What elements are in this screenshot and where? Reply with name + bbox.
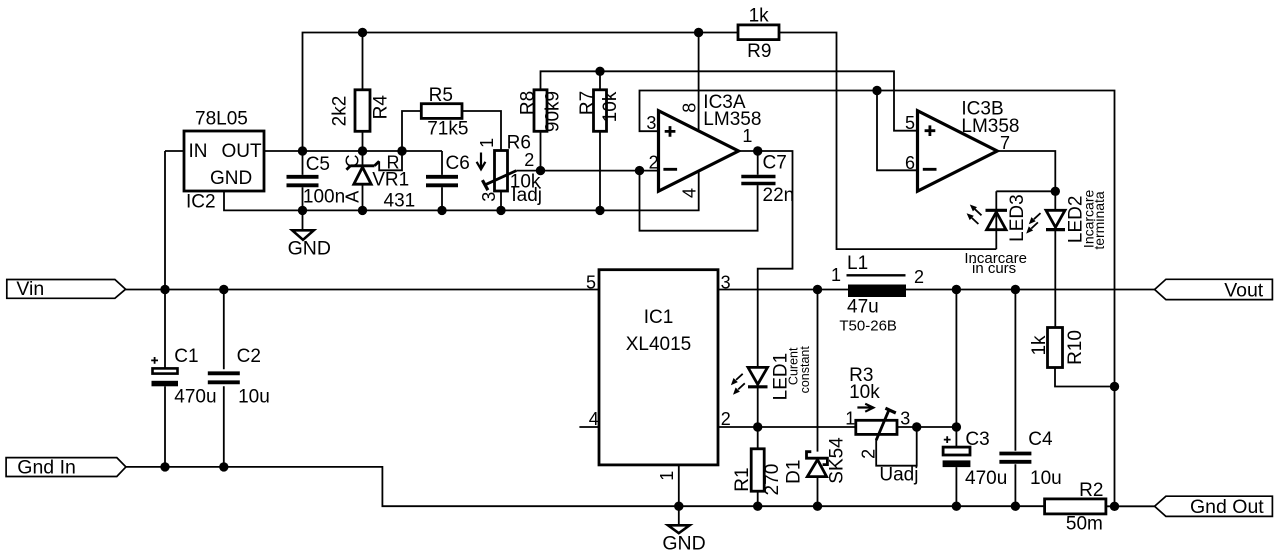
- svg-text:10u: 10u: [238, 387, 270, 408]
- svg-text:1: 1: [831, 265, 841, 285]
- resistor R10: [1029, 328, 1086, 368]
- svg-text:6: 6: [905, 153, 915, 173]
- svg-text:5: 5: [586, 272, 596, 292]
- resistor R4: [330, 90, 392, 132]
- svg-text:constant: constant: [798, 346, 812, 394]
- diode D1 SK54: [783, 437, 847, 484]
- svg-text:C6: C6: [446, 153, 470, 174]
- svg-text:1: 1: [477, 138, 497, 148]
- capacitor C3 electrolytic: [943, 429, 1008, 489]
- svg-text:GND: GND: [288, 237, 331, 259]
- LED3 charging indicator: [967, 194, 1028, 242]
- wire IC3A pin2 row: [541, 170, 659, 172]
- svg-text:LED3: LED3: [1007, 194, 1028, 242]
- svg-text:C7: C7: [763, 153, 787, 174]
- svg-text:Gnd In: Gnd In: [17, 456, 76, 478]
- svg-text:47u: 47u: [847, 297, 879, 318]
- terminal Vout: [1155, 279, 1273, 301]
- svg-text:C3: C3: [965, 429, 989, 450]
- buck converter IC1 XL4015: [599, 270, 718, 465]
- capacitor C1 electrolytic: [151, 346, 216, 408]
- svg-text:R4: R4: [371, 95, 392, 120]
- svg-text:3: 3: [900, 408, 910, 428]
- svg-text:R9: R9: [747, 41, 771, 62]
- svg-text:SK54: SK54: [827, 437, 848, 484]
- svg-text:XL4015: XL4015: [626, 334, 692, 355]
- wire Gnd In rail: [126, 467, 1045, 506]
- wire LED2 chain to R10: [1054, 191, 1056, 327]
- svg-text:R: R: [387, 153, 400, 173]
- svg-text:L1: L1: [847, 253, 868, 274]
- wire 5V top rail: [303, 33, 739, 152]
- svg-text:R5: R5: [429, 85, 453, 106]
- svg-text:8: 8: [679, 103, 699, 113]
- svg-text:50m: 50m: [1066, 514, 1103, 535]
- svg-text:2: 2: [524, 150, 534, 170]
- svg-text:10u: 10u: [1030, 468, 1062, 489]
- wire R6 wiper to R8 node: [516, 170, 540, 172]
- svg-text:1: 1: [845, 408, 855, 428]
- wire R5 left lead: [402, 111, 421, 151]
- svg-text:R2: R2: [1079, 480, 1103, 501]
- capacitor C5: [287, 154, 346, 208]
- wire VR1 ref link: [379, 151, 402, 170]
- svg-text:GND: GND: [210, 168, 252, 189]
- ground symbol GND (IC1): [662, 525, 705, 554]
- wire C5 leads: [302, 151, 304, 230]
- svg-text:R7: R7: [577, 91, 598, 115]
- wire R3 wiper loop: [876, 427, 917, 466]
- wire IC3A pin1 to C7 top: [739, 151, 758, 175]
- svg-text:C1: C1: [174, 346, 198, 367]
- svg-text:IN: IN: [189, 141, 208, 162]
- svg-text:90k9: 90k9: [543, 91, 564, 132]
- svg-text:10k: 10k: [600, 91, 621, 122]
- wire C6 top lead: [441, 151, 443, 175]
- svg-text:100n: 100n: [303, 187, 345, 208]
- svg-text:C4: C4: [1028, 429, 1053, 450]
- svg-text:IC1: IC1: [644, 307, 674, 328]
- svg-text:C: C: [343, 155, 363, 168]
- svg-text:R8: R8: [517, 91, 538, 115]
- wire IC1 pin2 FB rail: [718, 426, 956, 428]
- op-amp IC3A: [659, 92, 762, 191]
- svg-text:10k: 10k: [849, 382, 880, 403]
- svg-text:4: 4: [679, 188, 699, 198]
- regulator IC2 78L05: [184, 109, 264, 213]
- svg-text:Iadj: Iadj: [511, 185, 542, 206]
- wire Vin rail to IC1 pin5: [126, 289, 599, 291]
- wire R2 right lead: [1106, 505, 1155, 507]
- svg-text:VR1: VR1: [372, 170, 409, 191]
- svg-text:A: A: [343, 191, 363, 203]
- capacitor C7: [741, 153, 794, 207]
- svg-text:7: 7: [1000, 133, 1010, 153]
- inductor L1: [831, 253, 924, 334]
- wire R10 bottom lead: [1055, 368, 1115, 387]
- wire IC1 pin3 to L1: [718, 289, 848, 291]
- svg-text:22n: 22n: [763, 185, 795, 206]
- svg-text:3: 3: [721, 272, 731, 292]
- ground symbol GND (C5): [288, 230, 331, 259]
- wire R8 leads and rail to IC3B pin5: [541, 71, 918, 170]
- svg-text:431: 431: [384, 191, 416, 212]
- wire C3 leads: [955, 290, 957, 507]
- svg-text:T50-26B: T50-26B: [839, 317, 897, 334]
- resistor R5: [421, 85, 468, 140]
- wire VR1 leads: [362, 151, 364, 210]
- terminal Gnd Out: [1155, 496, 1273, 518]
- wire ground reference rail: [224, 171, 699, 210]
- wire IC1 pin4 stub: [579, 426, 599, 428]
- wire IC1 pin1 to ground: [678, 465, 680, 525]
- wire D1 leads: [817, 290, 819, 507]
- svg-text:Gnd Out: Gnd Out: [1190, 496, 1264, 518]
- svg-text:1: 1: [742, 126, 752, 146]
- svg-text:270: 270: [762, 464, 783, 496]
- svg-text:Uadj: Uadj: [879, 464, 918, 485]
- terminal Vin: [7, 278, 126, 300]
- svg-text:3: 3: [646, 113, 656, 133]
- svg-text:R1: R1: [732, 467, 753, 491]
- svg-text:IC2: IC2: [186, 192, 216, 213]
- wire R1 leads: [757, 427, 759, 506]
- wire LED1 bottom lead: [757, 387, 759, 427]
- wire R6 bottom lead: [500, 191, 502, 210]
- svg-text:2k2: 2k2: [330, 96, 351, 127]
- wire IC3A output detour to LED1: [758, 151, 793, 367]
- potentiometer R6 Iadj: [477, 132, 542, 206]
- svg-text:1: 1: [657, 471, 677, 481]
- svg-text:78L05: 78L05: [195, 109, 248, 130]
- wire LED3 lead: [996, 191, 1055, 249]
- svg-text:2: 2: [649, 153, 659, 173]
- svg-text:2: 2: [859, 449, 879, 459]
- svg-text:R10: R10: [1065, 330, 1086, 365]
- resistor R2 shunt: [1045, 480, 1106, 534]
- wire C6 bottom lead: [441, 187, 443, 210]
- svg-text:4: 4: [589, 409, 599, 429]
- wire IC3B pin6 tap: [877, 91, 918, 171]
- resistor R9: [738, 5, 779, 62]
- wire R4 leads: [362, 33, 364, 152]
- wire C2 leads: [223, 290, 225, 467]
- svg-text:LM358: LM358: [703, 109, 761, 130]
- svg-text:in curs: in curs: [972, 260, 1016, 277]
- op-amp IC3B: [918, 99, 1020, 192]
- wire IC3A feedback to C7: [640, 171, 758, 231]
- wire R9 right to LED3 anode: [779, 33, 996, 250]
- wire IC3A pin3 sense line: [640, 91, 1115, 507]
- svg-text:2: 2: [721, 409, 731, 429]
- svg-text:GND: GND: [662, 533, 705, 555]
- wire IC3B pin7 output: [997, 151, 1055, 191]
- svg-text:LM358: LM358: [961, 116, 1019, 137]
- wire R5 right lead to R6: [462, 111, 501, 151]
- svg-text:terminata: terminata: [1091, 191, 1107, 250]
- svg-text:OUT: OUT: [222, 141, 263, 162]
- wire IC3A pin8: [698, 33, 700, 131]
- svg-text:C5: C5: [306, 154, 330, 175]
- svg-text:71k5: 71k5: [427, 119, 468, 140]
- resistor R8: [517, 90, 563, 132]
- wire C4 leads: [1014, 290, 1016, 507]
- shunt reference VR1 431: [343, 153, 416, 212]
- svg-text:1k: 1k: [1029, 335, 1050, 356]
- svg-text:D1: D1: [783, 460, 804, 484]
- potentiometer R3 Uadj: [845, 365, 918, 485]
- svg-text:2: 2: [914, 267, 924, 287]
- capacitor C2: [208, 346, 270, 408]
- svg-text:Vout: Vout: [1224, 279, 1264, 301]
- svg-text:1k: 1k: [749, 5, 770, 26]
- terminal Gnd In: [6, 456, 126, 478]
- svg-text:470u: 470u: [965, 468, 1007, 489]
- svg-text:470u: 470u: [174, 387, 216, 408]
- capacitor C4: [999, 429, 1061, 489]
- LED2 charge complete: [1026, 190, 1107, 250]
- wire L1 to Vout: [906, 289, 1155, 291]
- wire C1 bottom lead: [164, 386, 166, 467]
- wire R7 leads: [599, 71, 601, 210]
- LED1 current constant: [731, 346, 812, 401]
- wire C1 top lead with 78L05 IN: [165, 151, 184, 368]
- svg-text:5: 5: [905, 113, 915, 133]
- resistor R7: [577, 90, 621, 132]
- svg-text:C2: C2: [237, 346, 261, 367]
- svg-text:3: 3: [479, 192, 499, 202]
- svg-text:Vin: Vin: [16, 278, 44, 300]
- resistor R1: [732, 449, 783, 496]
- capacitor C6: [426, 153, 470, 185]
- wire 78L05 OUT node row: [264, 150, 442, 152]
